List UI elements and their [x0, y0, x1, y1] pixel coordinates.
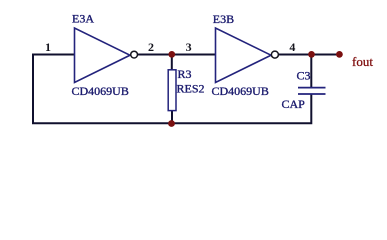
capacitor C3 top plate	[298, 87, 326, 89]
wire resistor top stub	[171, 55, 173, 70]
svg-text:CD4069UB: CD4069UB	[212, 84, 269, 98]
svg-text:RES2: RES2	[177, 81, 205, 95]
wire inverter U2 output to fout	[278, 54, 339, 56]
op-amp inverter E3A triangle	[75, 28, 131, 83]
svg-text:4: 4	[289, 40, 295, 54]
capacitor C3 bottom plate	[298, 93, 326, 95]
op-amp inverter E3B triangle	[216, 28, 272, 83]
svg-text:CAP: CAP	[282, 97, 306, 111]
svg-text:E3A: E3A	[72, 11, 94, 25]
junction node pin4/C3 top	[308, 51, 315, 58]
svg-text:C3: C3	[297, 69, 311, 83]
svg-text:1: 1	[45, 40, 51, 54]
inverter E3A output bubble	[131, 51, 138, 58]
svg-text:CD4069UB: CD4069UB	[72, 84, 129, 98]
svg-text:3: 3	[186, 40, 192, 54]
inverter E3B output bubble	[271, 51, 278, 58]
svg-text:fout: fout	[352, 54, 373, 69]
svg-text:E3B: E3B	[213, 12, 234, 26]
svg-text:2: 2	[148, 40, 154, 54]
resistor R3 body	[168, 70, 176, 111]
svg-text:R3: R3	[178, 67, 192, 81]
wire left vertical + bottom rail + capacitor bottom riser	[33, 54, 311, 124]
wire input net from pin1 corner to inverter U1 input	[33, 54, 75, 56]
junction node pin2/R3 top	[168, 51, 175, 58]
wire capacitor top stub	[310, 55, 312, 88]
node fout terminal dot	[336, 51, 343, 58]
wire resistor bottom stub	[171, 111, 173, 124]
wire inverter U1 output to inverter U2 input	[138, 54, 216, 56]
junction node R3 bottom / rail	[168, 120, 175, 127]
